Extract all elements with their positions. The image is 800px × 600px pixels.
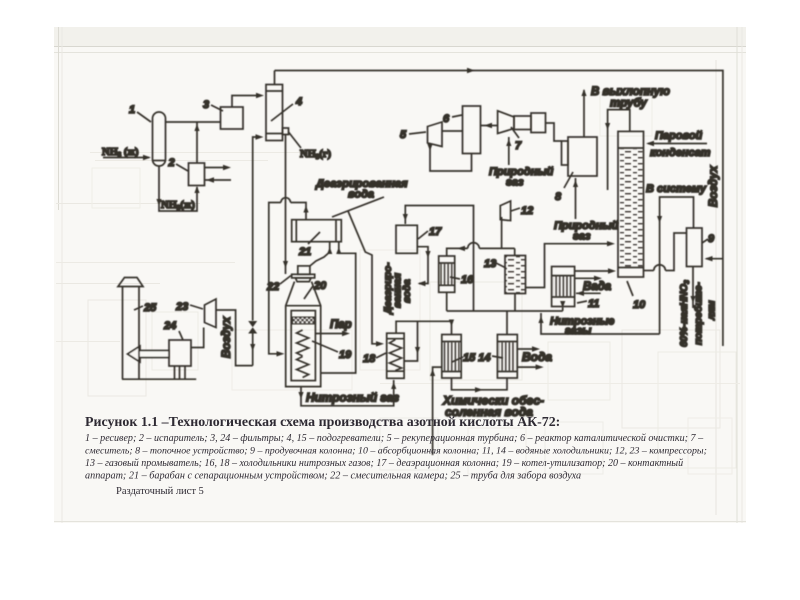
svg-text:21: 21 [298,246,311,258]
furnace 8 [568,137,597,176]
washer 13 [505,256,526,294]
svg-text:13 – газовый промыватель; 16,: 13 – газовый промыватель; 16, 18 – холод… [85,458,683,469]
air line with valve to heater 4 [252,334,254,366]
filter 24 [169,340,191,366]
svg-text:6: 6 [443,113,450,125]
natural gas wire to absorber 10 [526,244,613,288]
wire receiver bottom to evaporator 2 [159,166,197,211]
wire compressor 12 to cooler 16 [501,217,503,248]
wire filter 3 to heater 4 [232,96,261,108]
nitrous feed line to cooler 11 [447,310,563,312]
svg-text:газ: газ [573,231,591,243]
wire NH3 gas down to mixing chamber 22 [285,135,287,275]
wire compressor 7 to furnace 8 [546,123,562,141]
steam arrow wire [315,333,347,335]
svg-text:потребите-: потребите- [693,281,705,345]
wire compressor 23 to air line [216,310,253,366]
svg-text:8: 8 [555,191,562,203]
U wire cooler 15 to 14 [452,378,508,390]
svg-text:11: 11 [588,298,599,310]
cooler 11 [552,267,575,307]
v sistemu wire from column 9 [660,197,694,334]
NH3(g) stub on heater 4 [283,128,289,135]
wire evaporator 2 top riser [196,122,198,163]
air compressor 7 [498,111,514,134]
cooler 16 [439,256,455,292]
svg-text:смеситель; 8 – топочное устрой: смеситель; 8 – топочное устройство; 9 – … [85,446,707,457]
svg-text:Рисунок 1.1 –Технологическая с: Рисунок 1.1 –Технологическая схема произ… [85,415,560,430]
svg-text:В систему: В систему [646,183,707,195]
purge column 9 [687,228,703,267]
svg-text:газ: газ [506,177,524,189]
wire header into deaerator 17 [405,206,473,312]
wire filter 24 to compressor 23 [191,328,204,348]
wire deaerated water down to cooler 18 [348,211,381,344]
water out wire of 11 [575,277,599,279]
ground base line [122,378,196,380]
contact apparatus 20 cone [286,282,321,387]
compressor 23 [205,299,217,328]
svg-text:25: 25 [143,302,157,314]
wire receiver 1 to filter 3 [166,121,221,123]
water out wires of 14 [517,348,537,350]
svg-text:аппарат; 21 – барабан с сепара: аппарат; 21 – барабан с сепарационным ус… [85,471,581,482]
compressor 12 [500,201,510,221]
main top header wire [275,71,723,347]
natural gas wire into compressor 7 [508,137,510,165]
svg-text:4: 4 [295,96,302,108]
separator drum 21 [292,220,342,242]
svg-text:Раздаточный лист 5: Раздаточный лист 5 [116,486,204,497]
svg-text:газы: газы [565,325,592,337]
wire stub to washer 13 [514,248,516,255]
svg-text:Воздух: Воздух [708,165,720,207]
svg-text:1 – ресивер; 2 – испаритель; 3: 1 – ресивер; 2 – испаритель; 3, 24 – фил… [85,433,704,444]
wire cooler 14 top stub [506,311,508,335]
chem water inlet wire [433,367,442,455]
deaerated water label leader [332,197,384,217]
wire cooler 18 top header to cooler 15 [396,321,451,334]
svg-text:17: 17 [429,226,442,238]
acid product wire down [692,267,694,309]
svg-text:Паровой: Паровой [655,130,703,142]
steam condensate arrow wire [648,143,707,145]
svg-text:Вода: Вода [522,350,552,364]
svg-text:10: 10 [633,299,646,311]
svg-text:Пар: Пар [330,319,352,331]
wire cooler 11 top to absorber 10 [575,270,613,272]
svg-text:22: 22 [266,281,279,293]
svg-text:В выхлопную: В выхлопную [591,86,670,98]
wire steam from drum left bracket down to apparatus 20 [291,203,307,220]
air intake outline arrow [128,346,170,362]
furnace small jacket [562,141,569,165]
natural gas wire up to furnace 8 [575,178,577,219]
svg-text:7: 7 [515,140,522,152]
loop wire under 5 and 6 [430,145,472,172]
svg-text:1: 1 [129,104,135,116]
receiver 1 (vessel) [153,112,166,166]
svg-text:9: 9 [708,233,715,245]
absorption column 10 [618,131,644,277]
wire downcomer drum 21 to apparatus 20 [321,242,356,373]
svg-text:16: 16 [461,274,474,286]
inner liner of apparatus 20 [291,311,315,381]
svg-text:Вада: Вада [583,281,612,293]
svg-text:3: 3 [203,99,209,111]
wire header tee into cooler 18 right [404,321,417,361]
acid wire from absorber 10 bottom to column 9 [644,270,654,272]
svg-text:13: 13 [484,258,496,270]
boiler coil 19 [297,330,309,356]
mixing chamber 22 flange [298,266,310,274]
wire deaerator 17 outlet [417,247,428,284]
deaerator column 17 [396,225,417,253]
cooler 14 [497,335,517,379]
catalytic reactor 6 [463,106,481,154]
nitrous gas wire apparatus 20 to cooler 18 [301,380,394,406]
tail nitrous gas return wire [541,313,660,334]
svg-text:трубу: трубу [610,98,647,110]
wire evaporator 2 outputs right [205,167,229,169]
filter 3 [221,107,244,129]
wire heater 4 top to main air header [274,71,276,85]
wire riser apparatus 20 to drum 21 [310,242,330,266]
NH3 feed arrow wire [103,157,149,159]
wire furnace 8 to absorber 10 top [608,110,630,190]
svg-text:24: 24 [163,320,176,332]
wire turbine 5 to reactor 6 [442,130,463,132]
svg-text:вода: вода [348,189,374,201]
cooler 15 [442,335,461,379]
svg-text:Воздух: Воздух [221,316,233,358]
cooler 18 [387,333,404,378]
valve on air line [248,321,257,334]
air intake pipe 25 [122,287,124,380]
svg-text:19: 19 [339,349,352,361]
heater 4 (column) [266,85,283,141]
evaporator 2 [189,163,205,186]
svg-text:5: 5 [400,129,407,141]
svg-text:Нитрозный газ: Нитрозный газ [306,391,399,405]
svg-text:15 14: 15 14 [463,352,491,364]
svg-text:60%-наяHNO3: 60%-наяHNO3 [679,280,691,347]
wire compressor 7 to reactor 6 [481,125,498,127]
catalyst gauze (checkered) [293,317,315,324]
svg-text:2: 2 [168,157,175,169]
svg-text:12: 12 [521,205,533,217]
water in wire of 11 [576,292,601,294]
wire cooler 16 bottom to feed line [446,292,448,311]
svg-text:вода: вода [402,279,413,303]
recuperation turbine 5 [428,122,443,147]
svg-text:18: 18 [363,353,376,365]
wire washer 13 bottom stub [514,294,516,312]
svg-text:конденсат: конденсат [650,147,711,159]
svg-text:20: 20 [313,280,327,292]
svg-text:лям: лям [707,300,718,321]
exhaust wire to stack [583,90,585,137]
svg-text:23: 23 [175,301,188,313]
